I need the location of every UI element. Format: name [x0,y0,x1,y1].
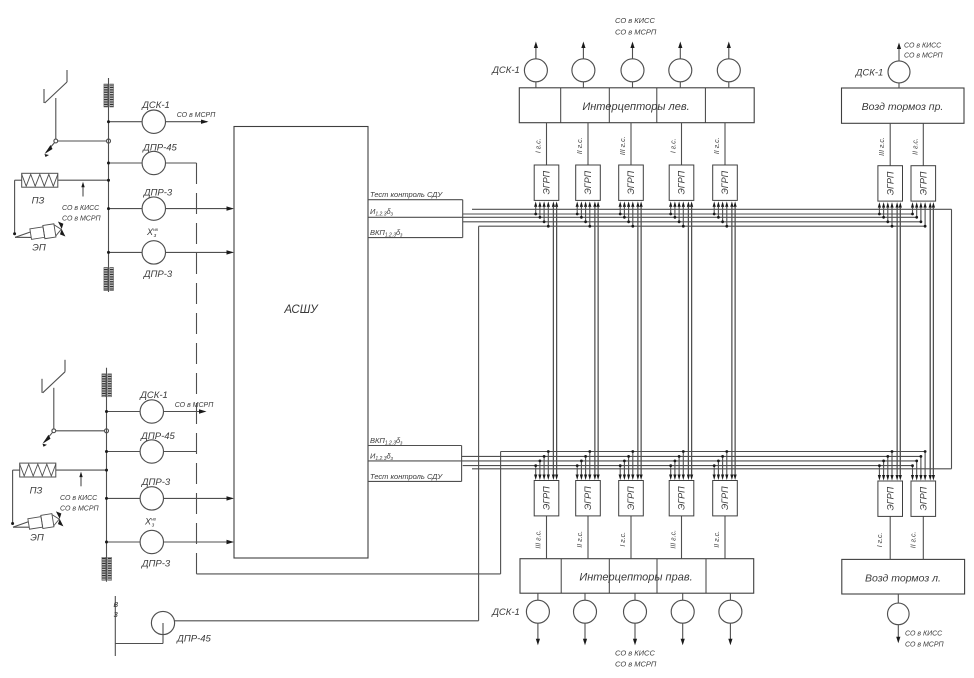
svg-text:ЭГРП: ЭГРП [885,486,895,510]
svg-text:I г.с.: I г.с. [877,532,884,547]
svg-text:II г.с.: II г.с. [714,137,721,154]
svg-text:Тест контроль СДУ: Тест контроль СДУ [370,190,443,199]
svg-text:III г.с.: III г.с. [879,137,886,156]
svg-text:II г.с.: II г.с. [910,532,917,549]
svg-text:ПЗ: ПЗ [30,485,43,496]
svg-text:II г.с.: II г.с. [912,138,919,155]
svg-text:СО в МСРП: СО в МСРП [904,53,944,60]
svg-text:Интерцепторы лев.: Интерцепторы лев. [582,101,689,113]
svg-text:Тест контроль СДУ: Тест контроль СДУ [370,472,443,481]
svg-text:ДСК-1: ДСК-1 [855,68,884,79]
svg-text:II г.с.: II г.с. [714,531,721,548]
svg-text:ЭГРП: ЭГРП [720,170,730,194]
svg-text:СО в КИСС: СО в КИСС [615,16,655,25]
svg-text:нв: нв [151,517,156,522]
svg-text:ДПР-3: ДПР-3 [143,187,173,198]
svg-text:II г.с.: II г.с. [577,137,584,154]
svg-text:ДСК-1: ДСК-1 [141,100,170,111]
svg-text:ЭГРП: ЭГРП [720,486,730,510]
svg-text:СО в МСРП: СО в МСРП [615,660,657,669]
svg-text:I г.с.: I г.с. [620,532,627,547]
svg-text:СО в МСРП: СО в МСРП [615,28,657,37]
svg-text:СО в МСРП: СО в МСРП [175,402,215,409]
svg-text:ЭГРП: ЭГРП [677,170,687,194]
svg-text:з: з [113,609,118,619]
svg-text:СО в МСРП: СО в МСРП [60,505,100,512]
svg-text:III г.с.: III г.с. [536,530,543,549]
svg-text:СО в КИСС: СО в КИСС [60,495,98,502]
svg-text:ЭГРП: ЭГРП [583,486,593,510]
svg-text:ЭГРП: ЭГРП [583,170,593,194]
svg-text:ДПР-3: ДПР-3 [141,477,171,488]
svg-text:ЭГРП: ЭГРП [919,486,929,510]
svg-text:Интерцепторы прав.: Интерцепторы прав. [579,572,692,584]
svg-text:ДПР-3: ДПР-3 [143,269,173,280]
svg-text:ДСК-1: ДСК-1 [491,65,520,76]
svg-text:ЭГРП: ЭГРП [626,170,636,194]
svg-text:СО в МСРП: СО в МСРП [905,642,945,649]
svg-text:ЭП: ЭП [32,243,46,254]
svg-text:ДПР-3: ДПР-3 [141,559,171,570]
svg-text:ПЗ: ПЗ [32,196,45,207]
svg-text:СО в МСРП: СО в МСРП [62,216,102,223]
svg-text:II г.с.: II г.с. [577,531,584,548]
svg-text:Возд тормоз л.: Возд тормоз л. [865,573,941,585]
svg-text:в: в [113,599,118,609]
svg-text:ЭГРП: ЭГРП [542,170,552,194]
svg-text:III г.с.: III г.с. [620,136,627,155]
svg-text:I г.с.: I г.с. [671,138,678,153]
svg-text:з: з [153,233,157,239]
svg-text:ДПР-45: ДПР-45 [142,142,177,153]
svg-text:з: з [151,523,155,529]
svg-text:АСШУ: АСШУ [283,304,319,316]
svg-text:ЭГРП: ЭГРП [919,171,929,195]
svg-text:ЭП: ЭП [30,532,44,543]
svg-text:I г.с.: I г.с. [536,138,543,153]
svg-text:ДПР-45: ДПР-45 [140,431,175,442]
svg-text:ДСК-1: ДСК-1 [139,390,168,401]
svg-text:ЭГРП: ЭГРП [677,486,687,510]
svg-text:ДПР-45: ДПР-45 [176,634,211,645]
svg-text:нв: нв [153,227,158,232]
svg-text:СО в КИСС: СО в КИСС [62,205,100,212]
svg-text:Возд тормоз пр.: Возд тормоз пр. [862,101,944,113]
svg-text:ЭГРП: ЭГРП [626,486,636,510]
svg-text:ДСК-1: ДСК-1 [491,607,520,618]
svg-text:ЭГРП: ЭГРП [885,171,895,195]
svg-text:ЭГРП: ЭГРП [542,486,552,510]
svg-text:СО в КИСС: СО в КИСС [615,649,655,658]
svg-text:III г.с.: III г.с. [671,530,678,549]
svg-text:СО в МСРП: СО в МСРП [177,112,217,119]
svg-text:СО в КИСС: СО в КИСС [905,631,943,638]
svg-text:СО в КИСС: СО в КИСС [904,43,942,50]
